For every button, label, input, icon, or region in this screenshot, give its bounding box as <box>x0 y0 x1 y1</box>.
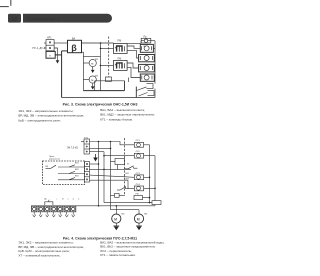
contactor KM2 <box>114 60 128 70</box>
motor M1 <box>89 59 96 66</box>
wire lamp column bottom vertical <box>135 87 137 98</box>
wire XT3 to mid verticals <box>98 205 100 207</box>
wire XP1 lower pin down <box>54 48 57 60</box>
terminal strip XT2 <box>85 162 90 183</box>
contact row 1 <box>58 166 85 168</box>
svg-text:КТ1 – команды блоков.: КТ1 – команды блоков. <box>100 117 133 121</box>
switch S1 blade <box>137 87 147 91</box>
wire K1 out2 to lamp2 <box>127 50 139 58</box>
svg-text:КТ1 – лампа сигнальная.: КТ1 – лампа сигнальная. <box>100 253 136 257</box>
svg-text:м: м <box>91 78 93 82</box>
wire XT2 row3 to lamp L3 <box>90 175 135 177</box>
svg-text:ПУ-1, ДУ-3: ПУ-1, ДУ-3 <box>33 47 46 50</box>
switch SA inside panel <box>46 168 51 170</box>
wire jog to lamp L4 <box>128 180 134 188</box>
svg-text:Пульт: Пульт <box>49 156 54 158</box>
contact row 2 <box>58 173 85 175</box>
wire outer loop bottom <box>62 97 155 99</box>
wire row2 <box>90 147 111 149</box>
legend fig2 right <box>100 240 164 257</box>
terminal strip XT1 (top) <box>84 139 90 154</box>
connector XP1 <box>46 40 54 51</box>
jumper bracket XT3 <box>45 202 53 205</box>
wire mid vertical <box>100 43 102 91</box>
arrow below M1 <box>92 67 94 70</box>
wire inner box left <box>94 81 96 91</box>
page number badge 12 <box>8 14 21 23</box>
svg-text:Приложение 2: Приложение 2 <box>27 17 60 23</box>
svg-text:м: м <box>91 62 93 66</box>
wire vertical bus C <box>110 142 112 210</box>
wire top rail XP1 to QF <box>54 42 67 44</box>
wire stub below lamp4 <box>127 78 129 83</box>
switch S2 socket <box>148 91 155 96</box>
node junction rail <box>100 42 102 44</box>
wire motor feed vertical <box>82 56 84 90</box>
lamp L3 fig2 <box>134 175 143 180</box>
lamp HL1 <box>140 44 153 52</box>
wire L2 feed <box>104 155 134 157</box>
svg-text:ПМ: ПМ <box>118 57 122 60</box>
ground arrow (XP1 lower) <box>56 60 60 63</box>
wire L2 right <box>144 155 155 157</box>
contact KT2 <box>117 189 120 191</box>
svg-text:β: β <box>71 43 77 53</box>
cabinet boundary fig2 (dash-dot) <box>124 138 126 196</box>
cabinet boundary (dash-dot) <box>108 37 110 78</box>
wire bottom h1 <box>104 202 152 204</box>
wire XT2 row2 to contact KT <box>90 168 132 170</box>
wire right vertical v1 <box>149 145 151 203</box>
terminal row XT3 labels <box>44 198 79 201</box>
wire row3 <box>90 151 105 153</box>
svg-text:с: с <box>57 199 58 201</box>
relay KV2 box <box>115 194 120 198</box>
ground arrow below XT1 <box>95 154 97 158</box>
arrow below M2 <box>92 83 94 86</box>
legend fig2 left <box>18 241 84 258</box>
wire K2 out2 to lamp4 <box>127 67 140 77</box>
wire QF to motor branch <box>82 52 84 56</box>
lamp HL4 <box>140 74 154 81</box>
wire outer loop left vertical <box>61 51 63 98</box>
svg-text:ВК1: ВК1 <box>126 173 129 175</box>
relay RV box <box>134 196 143 200</box>
wire K2 feed <box>101 65 114 67</box>
motor M2 <box>89 76 96 83</box>
svg-text:управления: управления <box>49 159 60 161</box>
wire right rail vertical <box>154 41 156 84</box>
lamp L1 fig2 <box>134 142 143 147</box>
motor M2 fig2 <box>138 210 140 214</box>
svg-text:КрБ – электродвигатель реле;: КрБ – электродвигатель реле; <box>18 119 61 123</box>
wire L1 right <box>144 144 150 146</box>
wire inner box right <box>124 81 126 91</box>
svg-text:ВА1, ВА2 – выключатели света;: ВА1, ВА2 – выключатели света; <box>100 108 145 112</box>
svg-text:е: е <box>67 199 68 201</box>
lamp L2 fig2 <box>134 153 143 158</box>
breaker QF (automatic switch) <box>68 40 82 52</box>
wire XT2 row4 <box>90 179 129 181</box>
svg-text:ВР, МД, ЭВ – электродвигатели: ВР, МД, ЭВ – электродвигатели вентилятор… <box>18 114 84 118</box>
ground below M1 <box>115 223 117 226</box>
contactor KM1 <box>114 44 128 54</box>
terminal row XT3 <box>32 206 76 212</box>
svg-text:ЭК1, ЭК2 – нагревательные элем: ЭК1, ЭК2 – нагревательные элементы; <box>18 109 73 113</box>
ground below M2 <box>138 223 140 226</box>
wire K1 feed <box>101 47 114 49</box>
svg-text:м: м <box>137 217 140 222</box>
wire XT2 row1 to bus A <box>90 163 99 165</box>
terminal row XT3 pins <box>33 212 75 217</box>
switch S1 socket <box>147 84 154 89</box>
wire inner box top <box>95 80 125 82</box>
svg-text:ВК1, МД2 – защитные переключат: ВК1, МД2 – защитные переключатели; <box>100 113 155 117</box>
wire QF out rail <box>82 42 114 44</box>
wire bottom h3 <box>111 209 140 211</box>
wire K1 out1 to lamp1 <box>127 46 140 48</box>
svg-text:12: 12 <box>12 17 18 23</box>
box at boundary end <box>105 77 111 81</box>
svg-text:ХР1: ХР1 <box>47 37 52 40</box>
wire K2 out1 to lamp3 <box>127 63 139 68</box>
lamp HL3 <box>139 64 155 72</box>
small box right bottom <box>152 201 161 205</box>
switch S2 blade <box>139 93 148 97</box>
contact row 3 <box>58 179 85 181</box>
node junction bus A row1 <box>98 163 100 165</box>
svg-text:Рис. 3. Схема электрическая ОН: Рис. 3. Схема электрическая ОНС-1,5И ОН3 <box>63 102 138 106</box>
wire P3 to outer loop <box>55 54 61 56</box>
svg-text:ХТ – клеммный выключатель.: ХТ – клеммный выключатель. <box>18 253 60 257</box>
svg-text:и: и <box>78 199 79 201</box>
wire inner bottom rail <box>83 90 124 92</box>
wire right rail lower <box>154 89 156 98</box>
fuse F1 <box>141 38 151 43</box>
legend fig1 right <box>100 108 155 122</box>
box P3 (input block) <box>46 51 55 58</box>
svg-text:Ав: Ав <box>44 198 46 201</box>
relay box KV1 <box>115 159 125 165</box>
header bar: Приложение 2 <box>23 14 112 23</box>
motor M1 fig2 <box>115 206 117 214</box>
lamp HL2 <box>139 55 155 62</box>
wire bottom h2 <box>78 205 156 207</box>
svg-text:ВК2: ВК2 <box>126 179 129 181</box>
wire vertical bus B <box>103 152 105 203</box>
terminal row XT3 top line <box>31 205 78 207</box>
wire row1 to lamp1 <box>90 142 135 145</box>
wire right vertical v2 <box>154 156 156 201</box>
wire motor branch horizontal <box>83 55 100 57</box>
legend fig1 left <box>18 109 84 123</box>
svg-text:м: м <box>114 217 117 222</box>
wire F1 to right rail <box>151 40 155 42</box>
wire into QF bottom <box>62 50 68 52</box>
svg-text:ПМ: ПМ <box>118 40 122 43</box>
wire rail above K1 to fuse jog <box>127 41 141 44</box>
control panel dashed box <box>43 161 85 185</box>
crop mark vertical <box>9 0 12 6</box>
wire vertical bus A <box>98 142 100 206</box>
svg-text:ЭК 7,5-И1: ЭК 7,5-И1 <box>67 146 79 149</box>
crop mark horizontal <box>0 5 9 8</box>
lamp L4 fig2 <box>134 186 143 191</box>
